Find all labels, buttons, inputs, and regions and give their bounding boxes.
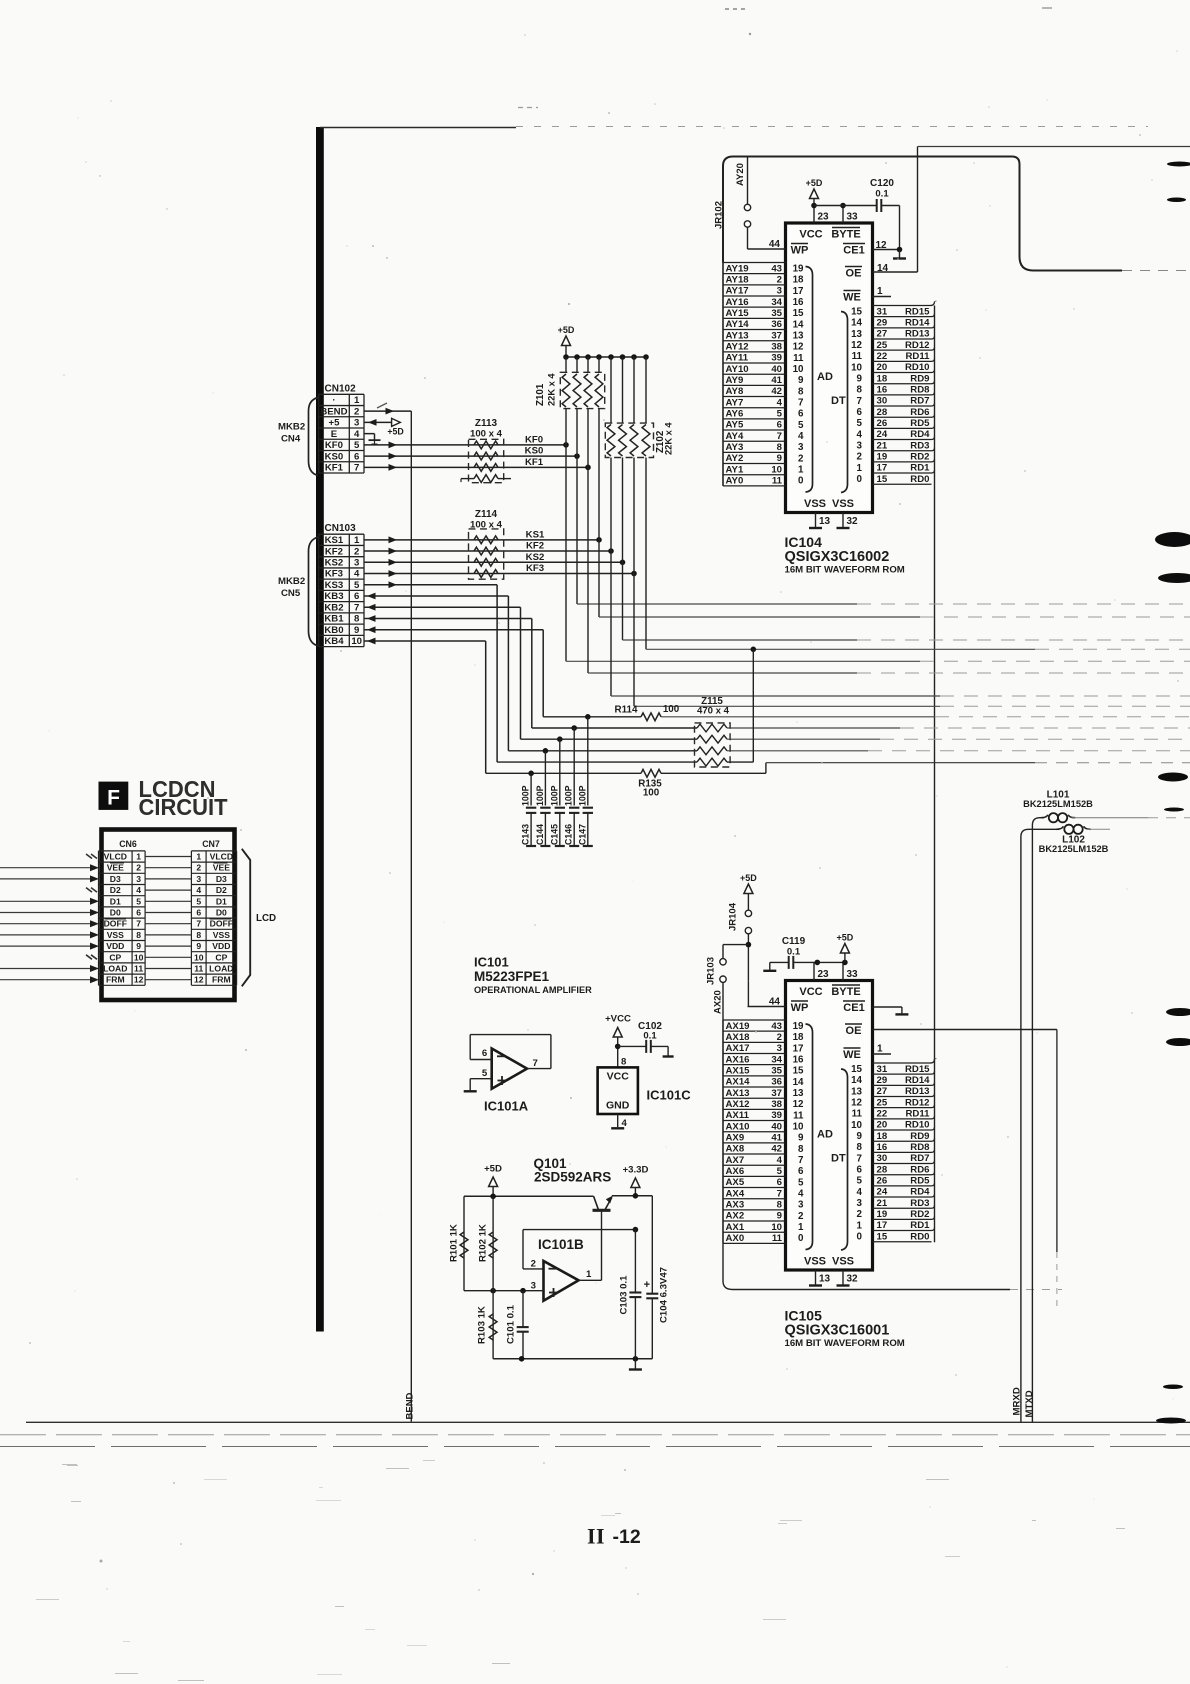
svg-text:41: 41 — [771, 375, 782, 386]
svg-text:+3.3D: +3.3D — [623, 1165, 649, 1176]
svg-text:RD12: RD12 — [905, 340, 930, 351]
svg-text:12: 12 — [793, 1099, 804, 1110]
svg-text:10: 10 — [851, 362, 862, 373]
svg-text:11: 11 — [852, 1109, 863, 1120]
svg-text:AY14: AY14 — [726, 319, 750, 330]
svg-text:8: 8 — [196, 930, 201, 940]
svg-text:100P: 100P — [577, 785, 587, 806]
svg-text:4: 4 — [136, 885, 141, 895]
svg-text:3: 3 — [857, 1198, 863, 1209]
svg-text:D3: D3 — [216, 874, 227, 884]
svg-text:BK2125LM152B: BK2125LM152B — [1039, 844, 1109, 854]
svg-text:AY16: AY16 — [726, 297, 749, 308]
svg-text:CIRCUIT: CIRCUIT — [139, 794, 229, 820]
svg-text:43: 43 — [771, 263, 782, 274]
svg-text:3: 3 — [798, 442, 804, 453]
svg-text:4: 4 — [354, 429, 360, 440]
svg-text:RD14: RD14 — [905, 1075, 930, 1086]
svg-text:31: 31 — [877, 306, 888, 317]
svg-text:R102 1K: R102 1K — [478, 1224, 489, 1262]
svg-text:7: 7 — [777, 1188, 782, 1199]
svg-text:18: 18 — [793, 1032, 804, 1043]
svg-text:8: 8 — [136, 930, 141, 940]
svg-text:MRXD: MRXD — [1012, 1387, 1023, 1415]
svg-text:23: 23 — [818, 212, 830, 223]
svg-text:40: 40 — [771, 1121, 782, 1132]
svg-text:14: 14 — [851, 1075, 862, 1086]
svg-text:CN7: CN7 — [202, 839, 220, 849]
svg-text:5: 5 — [798, 420, 804, 431]
svg-text:8: 8 — [777, 1200, 783, 1211]
svg-text:24: 24 — [877, 1187, 888, 1198]
svg-text:D0: D0 — [216, 908, 227, 918]
svg-text:3: 3 — [136, 874, 141, 884]
svg-text:1: 1 — [798, 1222, 804, 1233]
svg-text:3: 3 — [798, 1200, 804, 1211]
svg-text:44: 44 — [769, 239, 781, 250]
svg-text:33: 33 — [847, 969, 859, 980]
svg-text:11: 11 — [134, 964, 143, 974]
svg-text:VCC: VCC — [607, 1071, 630, 1083]
svg-text:5: 5 — [857, 1176, 863, 1187]
svg-text:13: 13 — [851, 1086, 862, 1097]
svg-text:AY4: AY4 — [726, 431, 744, 442]
svg-text:2: 2 — [777, 1032, 782, 1043]
svg-text:AY0: AY0 — [726, 476, 744, 487]
svg-text:29: 29 — [877, 317, 888, 328]
svg-text:AY15: AY15 — [726, 308, 750, 319]
svg-text:470 x 4: 470 x 4 — [697, 706, 730, 717]
svg-text:RD2: RD2 — [910, 1209, 929, 1220]
svg-text:6: 6 — [777, 1177, 782, 1188]
svg-text:AX10: AX10 — [726, 1121, 750, 1132]
svg-text:AX9: AX9 — [726, 1132, 745, 1143]
svg-text:28: 28 — [877, 407, 888, 418]
svg-text:13: 13 — [793, 1088, 804, 1099]
svg-text:DT: DT — [831, 1153, 846, 1165]
svg-text:+5D: +5D — [837, 933, 854, 943]
svg-text:14: 14 — [793, 319, 804, 330]
svg-text:Z113: Z113 — [475, 418, 498, 429]
svg-text:0.1: 0.1 — [643, 1031, 657, 1042]
svg-text:AY5: AY5 — [726, 420, 744, 431]
svg-text:10: 10 — [771, 464, 782, 475]
svg-text:C104 6.3V47: C104 6.3V47 — [659, 1267, 670, 1323]
svg-text:RD7: RD7 — [910, 1153, 929, 1164]
svg-text:RD1: RD1 — [910, 1220, 930, 1231]
svg-text:5: 5 — [798, 1177, 804, 1188]
svg-text:KF1: KF1 — [325, 463, 344, 474]
svg-text:0: 0 — [798, 1233, 804, 1244]
svg-text:8: 8 — [798, 1144, 804, 1155]
svg-text:IC101C: IC101C — [647, 1088, 692, 1103]
svg-text:26: 26 — [877, 418, 888, 429]
svg-text:16M BIT WAVEFORM ROM: 16M BIT WAVEFORM ROM — [785, 1338, 905, 1349]
svg-text:RD1: RD1 — [910, 463, 930, 474]
svg-text:22: 22 — [877, 1108, 888, 1119]
svg-text:32: 32 — [847, 516, 859, 527]
svg-text:15: 15 — [877, 1231, 888, 1242]
svg-text:RD0: RD0 — [910, 474, 929, 485]
svg-text:RD0: RD0 — [910, 1231, 929, 1242]
svg-text:+5: +5 — [328, 418, 340, 429]
svg-text:CN6: CN6 — [119, 839, 137, 849]
svg-text:KS0: KS0 — [525, 446, 544, 457]
svg-text:OE: OE — [846, 268, 862, 280]
svg-text:8: 8 — [857, 385, 863, 396]
svg-text:6: 6 — [777, 420, 782, 431]
svg-text:VDD: VDD — [106, 941, 124, 951]
svg-text:16: 16 — [793, 297, 804, 308]
svg-text:10: 10 — [194, 952, 204, 962]
svg-text:RD13: RD13 — [905, 1086, 930, 1097]
svg-text:CN5: CN5 — [281, 588, 301, 599]
svg-text:AY3: AY3 — [726, 442, 744, 453]
svg-text:BEND: BEND — [405, 1392, 416, 1419]
svg-text:5: 5 — [777, 408, 783, 419]
svg-text:10: 10 — [793, 364, 804, 375]
svg-text:BK2125LM152B: BK2125LM152B — [1023, 799, 1093, 809]
svg-text:AX20: AX20 — [713, 990, 724, 1014]
svg-text:AY1: AY1 — [726, 464, 744, 475]
svg-text:22: 22 — [877, 351, 888, 362]
svg-text:AY10: AY10 — [726, 364, 749, 375]
svg-text:D0: D0 — [110, 908, 121, 918]
svg-text:KS1: KS1 — [325, 535, 344, 546]
svg-text:CE1: CE1 — [843, 1002, 864, 1014]
svg-text:GND: GND — [606, 1100, 630, 1112]
svg-text:15: 15 — [877, 474, 888, 485]
svg-text:AX13: AX13 — [726, 1088, 750, 1099]
svg-text:RD6: RD6 — [910, 407, 929, 418]
svg-text:AY12: AY12 — [726, 341, 749, 352]
svg-text:3: 3 — [857, 441, 863, 452]
svg-text:RD3: RD3 — [910, 1198, 929, 1209]
svg-text:AY18: AY18 — [726, 274, 750, 285]
svg-text:DOFF: DOFF — [210, 919, 233, 929]
svg-text:30: 30 — [877, 396, 888, 407]
svg-text:29: 29 — [877, 1075, 888, 1086]
svg-text:2: 2 — [354, 406, 359, 417]
svg-text:19: 19 — [793, 263, 804, 274]
svg-text:21: 21 — [877, 440, 888, 451]
svg-text:27: 27 — [877, 329, 888, 340]
svg-text:VCC: VCC — [799, 229, 822, 241]
svg-text:C147: C147 — [577, 824, 587, 845]
svg-text:0: 0 — [857, 474, 863, 485]
svg-text:RD3: RD3 — [910, 440, 929, 451]
svg-text:18: 18 — [793, 275, 804, 286]
svg-text:C120: C120 — [870, 178, 894, 189]
svg-text:RD7: RD7 — [910, 396, 929, 407]
svg-text:+VCC: +VCC — [605, 1014, 631, 1025]
svg-text:5: 5 — [482, 1068, 488, 1079]
svg-text:6: 6 — [798, 409, 804, 420]
svg-text:1: 1 — [857, 1220, 863, 1231]
svg-text:2: 2 — [531, 1259, 536, 1270]
svg-text:22K x 4: 22K x 4 — [547, 373, 557, 406]
svg-text:1: 1 — [877, 1044, 883, 1055]
svg-text:VSS: VSS — [213, 930, 230, 940]
svg-text:9: 9 — [777, 1211, 782, 1222]
svg-text:23: 23 — [818, 969, 830, 980]
svg-text:6: 6 — [482, 1048, 487, 1059]
svg-text:18: 18 — [877, 373, 888, 384]
svg-text:D1: D1 — [216, 896, 227, 906]
svg-text:9: 9 — [354, 625, 359, 636]
svg-text:LOAD: LOAD — [209, 964, 233, 974]
svg-text:D1: D1 — [110, 896, 121, 906]
svg-text:AD: AD — [817, 1129, 833, 1141]
svg-text:1: 1 — [354, 535, 360, 546]
svg-text:VSS: VSS — [832, 1256, 854, 1268]
svg-text:16: 16 — [793, 1054, 804, 1065]
svg-text:39: 39 — [771, 353, 782, 364]
svg-text:100: 100 — [643, 788, 660, 799]
svg-text:17: 17 — [793, 286, 804, 297]
svg-text:5: 5 — [354, 580, 360, 591]
svg-text:2: 2 — [798, 1211, 804, 1222]
svg-text:KF3: KF3 — [325, 569, 343, 580]
svg-text:42: 42 — [771, 386, 782, 397]
svg-text:39: 39 — [771, 1110, 782, 1121]
svg-text:D2: D2 — [110, 885, 121, 895]
svg-text:11: 11 — [793, 353, 804, 364]
svg-text:KB2: KB2 — [324, 602, 343, 613]
svg-text:100 x 4: 100 x 4 — [470, 429, 503, 440]
svg-text:AY11: AY11 — [726, 353, 749, 364]
svg-text:25: 25 — [877, 1097, 888, 1108]
svg-text:AX11: AX11 — [726, 1110, 750, 1121]
svg-text:E: E — [331, 429, 338, 440]
svg-text:RD11: RD11 — [906, 1108, 931, 1119]
svg-text:RD11: RD11 — [906, 351, 931, 362]
svg-text:MKB2: MKB2 — [278, 576, 305, 587]
svg-text:AY8: AY8 — [726, 386, 744, 397]
svg-text:+5D: +5D — [740, 873, 757, 883]
svg-text:38: 38 — [771, 341, 782, 352]
svg-text:19: 19 — [877, 451, 888, 462]
svg-text:7: 7 — [136, 919, 141, 929]
svg-text:4: 4 — [777, 1155, 783, 1166]
svg-text:6: 6 — [136, 908, 141, 918]
svg-text:+5D: +5D — [806, 178, 823, 188]
svg-text:WP: WP — [791, 1002, 809, 1014]
svg-text:7: 7 — [857, 396, 863, 407]
svg-text:RD5: RD5 — [910, 418, 930, 429]
svg-text:RD2: RD2 — [910, 451, 929, 462]
svg-text:2: 2 — [136, 863, 141, 873]
svg-text:AX4: AX4 — [726, 1188, 745, 1199]
svg-text:24: 24 — [877, 429, 888, 440]
svg-text:36: 36 — [771, 319, 782, 330]
svg-text:100: 100 — [663, 704, 680, 715]
svg-text:2: 2 — [196, 863, 201, 873]
svg-text:5: 5 — [777, 1166, 783, 1177]
svg-text:AY7: AY7 — [726, 397, 744, 408]
svg-text:AY17: AY17 — [726, 286, 749, 297]
svg-text:12: 12 — [793, 342, 804, 353]
svg-text:AX14: AX14 — [726, 1077, 751, 1088]
svg-text:CN103: CN103 — [325, 523, 357, 534]
svg-text:30: 30 — [877, 1153, 888, 1164]
svg-text:7: 7 — [533, 1058, 538, 1069]
svg-text:AX0: AX0 — [726, 1233, 745, 1244]
svg-text:KS1: KS1 — [526, 529, 545, 540]
svg-text:KF0: KF0 — [525, 434, 543, 445]
svg-text:9: 9 — [857, 374, 863, 385]
svg-text:6: 6 — [354, 591, 359, 602]
svg-text:13: 13 — [793, 331, 804, 342]
svg-text:AY6: AY6 — [726, 408, 744, 419]
svg-text:38: 38 — [771, 1099, 782, 1110]
svg-text:9: 9 — [798, 375, 804, 386]
svg-text:2: 2 — [798, 453, 804, 464]
svg-text:4: 4 — [857, 429, 863, 440]
svg-text:12: 12 — [851, 1097, 862, 1108]
svg-text:5: 5 — [857, 418, 863, 429]
svg-text:6: 6 — [857, 407, 863, 418]
svg-text:19: 19 — [793, 1021, 804, 1032]
svg-text:3: 3 — [777, 286, 782, 297]
svg-text:AX16: AX16 — [726, 1054, 750, 1065]
svg-text:KS0: KS0 — [325, 451, 344, 462]
svg-text:17: 17 — [877, 463, 888, 474]
svg-text:KF2: KF2 — [325, 546, 343, 557]
svg-text:CN102: CN102 — [325, 384, 357, 395]
svg-text:22K x 4: 22K x 4 — [664, 422, 674, 455]
svg-text:15: 15 — [851, 1064, 862, 1075]
svg-text:12: 12 — [851, 340, 862, 351]
svg-text:2: 2 — [354, 546, 359, 557]
svg-text:IC101A: IC101A — [484, 1099, 529, 1114]
svg-text:AY20: AY20 — [735, 163, 746, 186]
svg-text:9: 9 — [857, 1131, 863, 1142]
svg-text:1: 1 — [136, 852, 141, 862]
svg-text:4: 4 — [354, 569, 360, 580]
svg-text:AX7: AX7 — [726, 1155, 745, 1166]
svg-text:C101 0.1: C101 0.1 — [506, 1304, 517, 1344]
svg-text:100P: 100P — [535, 785, 545, 806]
svg-text:RD13: RD13 — [905, 329, 930, 340]
svg-text:9: 9 — [777, 453, 782, 464]
svg-text:QSIGX3C16001: QSIGX3C16001 — [785, 1323, 890, 1339]
svg-text:0.1: 0.1 — [787, 947, 801, 958]
svg-text:MTXD: MTXD — [1024, 1390, 1035, 1417]
svg-text:40: 40 — [771, 364, 782, 375]
svg-text:AX17: AX17 — [726, 1043, 750, 1054]
svg-text:0.1: 0.1 — [875, 189, 889, 200]
svg-text:3: 3 — [531, 1280, 536, 1291]
svg-text:BYTE: BYTE — [831, 229, 860, 241]
svg-text:10: 10 — [134, 952, 144, 962]
svg-text:RD8: RD8 — [910, 1142, 930, 1153]
svg-text:100P: 100P — [549, 785, 559, 806]
svg-text:AY13: AY13 — [726, 330, 749, 341]
svg-text:IC104: IC104 — [785, 534, 823, 550]
svg-text:2SD592ARS: 2SD592ARS — [534, 1170, 611, 1185]
svg-text:7: 7 — [857, 1153, 863, 1164]
svg-text:17: 17 — [793, 1043, 804, 1054]
svg-text:0: 0 — [857, 1232, 863, 1243]
svg-text:M5223FPE1: M5223FPE1 — [474, 969, 550, 984]
svg-text:37: 37 — [771, 330, 782, 341]
svg-text:6: 6 — [354, 451, 359, 462]
svg-text:BEND: BEND — [320, 406, 347, 417]
svg-text:RD4: RD4 — [910, 429, 930, 440]
svg-text:RD15: RD15 — [905, 1064, 930, 1075]
svg-text:1: 1 — [857, 463, 863, 474]
svg-text:VDD: VDD — [212, 941, 230, 951]
svg-text:CN4: CN4 — [281, 434, 301, 445]
svg-text:RD9: RD9 — [910, 373, 929, 384]
svg-text:11: 11 — [772, 476, 783, 487]
svg-text:7: 7 — [196, 919, 201, 929]
svg-text:VSS: VSS — [107, 930, 124, 940]
svg-text:5: 5 — [354, 440, 360, 451]
svg-text:6: 6 — [196, 908, 201, 918]
svg-text:26: 26 — [877, 1175, 888, 1186]
svg-text:12: 12 — [134, 975, 144, 985]
svg-text:14: 14 — [877, 263, 889, 274]
svg-text:VLCD: VLCD — [210, 852, 233, 862]
svg-text:44: 44 — [769, 997, 781, 1008]
svg-text:VLCD: VLCD — [104, 852, 127, 862]
svg-text:AX5: AX5 — [726, 1177, 745, 1188]
svg-text:1: 1 — [196, 852, 201, 862]
svg-text:21: 21 — [877, 1198, 888, 1209]
svg-text:14: 14 — [851, 318, 862, 329]
svg-text:OPERATIONAL AMPLIFIER: OPERATIONAL AMPLIFIER — [474, 985, 592, 995]
svg-text:AX19: AX19 — [726, 1021, 750, 1032]
svg-text:4: 4 — [798, 1189, 804, 1200]
svg-text:9: 9 — [136, 941, 141, 951]
svg-text:-12: -12 — [613, 1526, 641, 1548]
svg-text:AX1: AX1 — [726, 1222, 745, 1233]
svg-text:CE1: CE1 — [843, 245, 864, 257]
svg-text:5: 5 — [136, 896, 141, 906]
svg-text:JR102: JR102 — [714, 201, 725, 229]
svg-text:32: 32 — [847, 1274, 859, 1285]
svg-text:Z101: Z101 — [535, 383, 546, 406]
svg-text:C103 0.1: C103 0.1 — [619, 1275, 630, 1315]
svg-text:·: · — [332, 395, 335, 406]
svg-text:R103 1K: R103 1K — [477, 1306, 488, 1344]
svg-text:6: 6 — [857, 1165, 863, 1176]
svg-text:33: 33 — [847, 212, 859, 223]
svg-text:15: 15 — [793, 1066, 804, 1077]
svg-text:4: 4 — [196, 885, 201, 895]
svg-text:35: 35 — [771, 1065, 782, 1076]
svg-text:C145: C145 — [549, 824, 559, 845]
svg-text:VSS: VSS — [804, 1256, 826, 1268]
svg-text:D3: D3 — [110, 874, 121, 884]
svg-text:C144: C144 — [535, 824, 545, 845]
svg-text:VEE: VEE — [213, 863, 230, 873]
svg-text:AX6: AX6 — [726, 1166, 745, 1177]
svg-text:LCD: LCD — [256, 913, 276, 924]
svg-text:3: 3 — [777, 1043, 782, 1054]
svg-text:8: 8 — [777, 442, 783, 453]
svg-text:7: 7 — [777, 431, 782, 442]
svg-text:KB0: KB0 — [324, 625, 343, 636]
svg-text:RD15: RD15 — [905, 306, 930, 317]
svg-text:QSIGX3C16002: QSIGX3C16002 — [785, 549, 890, 565]
svg-text:+5D: +5D — [558, 325, 575, 335]
svg-text:20: 20 — [877, 1120, 888, 1131]
svg-text:3: 3 — [196, 874, 201, 884]
svg-text:36: 36 — [771, 1077, 782, 1088]
